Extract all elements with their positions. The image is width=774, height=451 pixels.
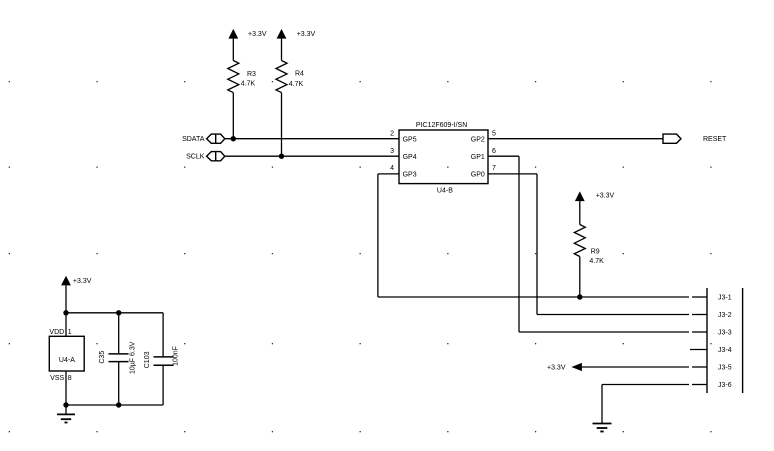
pin J3-3: [692, 329, 732, 336]
pin 7 GP0: [471, 165, 496, 179]
svg-text:4.7K: 4.7K: [289, 81, 304, 88]
junction rail/C35: [116, 310, 121, 315]
svg-text:GP1: GP1: [471, 154, 485, 161]
svg-text:GP2: GP2: [471, 137, 485, 144]
svg-text:R3: R3: [247, 71, 256, 78]
resistor R3 4.7K: [228, 61, 256, 93]
svg-text:C103: C103: [144, 351, 151, 368]
wire GP3 horizontal to J3-1: [378, 296, 689, 298]
svg-text:1: 1: [68, 329, 72, 336]
wire GP3 vertical: [377, 174, 379, 297]
wire GP0 horizontal to J3-2: [537, 314, 689, 316]
wire bottom rail: [66, 404, 163, 406]
wire net SCLK to pin 3: [225, 155, 399, 157]
wire GP0 vertical: [536, 174, 538, 315]
svg-text:VDD: VDD: [49, 329, 64, 336]
junction rail/C35 bottom: [116, 402, 121, 407]
svg-text:R9: R9: [591, 249, 600, 256]
wire C103 top lead: [162, 313, 164, 357]
wire R9 bottom lead: [579, 257, 581, 298]
resistor R4 4.7K: [276, 61, 304, 93]
svg-text:6: 6: [492, 148, 496, 155]
svg-text:C35: C35: [99, 351, 106, 364]
ground (U4-A): [57, 414, 75, 422]
pin J3-5: [692, 364, 732, 371]
junction rail/VDD: [63, 310, 68, 315]
wire J3-6 net: [602, 385, 689, 424]
op IC U4-A: [49, 336, 84, 371]
svg-text:7: 7: [492, 165, 496, 172]
connector J3 body: [707, 288, 743, 393]
svg-text:+3.3V: +3.3V: [248, 31, 267, 38]
resistor R9 4.7K: [574, 225, 604, 266]
svg-text:J3-3: J3-3: [718, 329, 732, 336]
wire to ground: [65, 405, 67, 414]
pin 3 GP4: [390, 148, 417, 161]
svg-text:2: 2: [390, 131, 394, 138]
pin 5 GP2: [471, 131, 496, 144]
pin J3-6: [692, 382, 732, 389]
svg-text:J3-4: J3-4: [718, 347, 732, 354]
wire pin7 stub: [488, 173, 537, 175]
svg-text:GP4: GP4: [403, 154, 417, 161]
svg-text:4: 4: [390, 165, 394, 172]
svg-text:GP0: GP0: [471, 172, 485, 179]
capacitor C103 100nF: [144, 346, 180, 368]
svg-text:8: 8: [68, 375, 72, 382]
svg-text:RESET: RESET: [703, 136, 727, 143]
pin 6 GP1: [471, 148, 496, 161]
wire VSS to bottom rail: [65, 371, 67, 405]
svg-text:J3-1: J3-1: [718, 294, 732, 301]
wire R4 bottom lead to SCLK: [281, 93, 283, 157]
power +3.3V (U4-A): [61, 276, 92, 313]
power +3.3V (R4): [277, 29, 316, 61]
port SCLK: [186, 152, 225, 161]
pin J3-4: [690, 347, 732, 354]
wire pin6 stub: [488, 155, 519, 157]
wire top rail: [66, 312, 163, 314]
wire C35 top lead: [118, 313, 120, 354]
svg-text:J3-5: J3-5: [718, 364, 732, 371]
op IC U4-B PIC12F609-I/SN: [399, 122, 488, 195]
junction rail/VSS: [63, 402, 68, 407]
pin 1 VDD: [49, 329, 71, 336]
svg-text:GP5: GP5: [403, 137, 417, 144]
capacitor C35 10uF 6.3V: [99, 341, 136, 374]
wire VDD rail vertical: [65, 313, 67, 337]
pin J3-1: [692, 294, 732, 301]
svg-text:J3-6: J3-6: [718, 382, 732, 389]
pin 4 GP3: [390, 165, 417, 179]
wire C103 bottom lead: [162, 365, 164, 405]
wire C35 bottom lead: [118, 362, 120, 405]
power +3.3V (R3): [228, 29, 266, 61]
svg-text:GP3: GP3: [403, 172, 417, 179]
svg-text:10µF 6.3V: 10µF 6.3V: [129, 341, 136, 374]
wire GP1 vertical: [518, 156, 520, 332]
junction R9/J3-1 net: [577, 294, 582, 299]
svg-text:3: 3: [390, 148, 394, 155]
pin 2 GP5: [390, 131, 417, 144]
svg-text:5: 5: [492, 131, 496, 138]
svg-text:PIC12F609-I/SN: PIC12F609-I/SN: [416, 122, 467, 129]
svg-text:SCLK: SCLK: [186, 154, 205, 161]
svg-text:+3.3V: +3.3V: [73, 278, 92, 285]
pin J3-2: [692, 312, 732, 319]
wire net SDATA to pin 2: [225, 138, 399, 140]
svg-text:+3.3V: +3.3V: [547, 364, 566, 371]
svg-text:U4-A: U4-A: [59, 357, 75, 364]
svg-text:4.7K: 4.7K: [589, 258, 604, 265]
svg-text:100nF: 100nF: [173, 346, 180, 366]
pin 8 VSS: [50, 375, 72, 382]
junction SDATA/R3: [231, 136, 236, 141]
power +3.3V (J3-5): [547, 363, 582, 372]
wire J3-5 net: [582, 366, 689, 368]
port SDATA: [182, 134, 225, 143]
ground (J3-6): [593, 424, 612, 432]
power +3.3V (R9): [575, 191, 615, 224]
svg-text:R4: R4: [295, 71, 304, 78]
port RESET: [663, 134, 727, 143]
wire pin4 stub: [378, 173, 399, 175]
svg-text:VSS: VSS: [50, 375, 64, 382]
svg-text:J3-2: J3-2: [718, 312, 732, 319]
svg-text:+3.3V: +3.3V: [596, 193, 615, 200]
wire GP1 horizontal to J3-3: [519, 331, 689, 333]
svg-text:SDATA: SDATA: [182, 136, 205, 143]
svg-text:U4-B: U4-B: [437, 187, 453, 194]
svg-text:+3.3V: +3.3V: [297, 31, 316, 38]
wire R3 bottom lead to SDATA: [232, 93, 234, 139]
junction SCLK/R4: [279, 154, 284, 159]
svg-text:4.7K: 4.7K: [241, 81, 256, 88]
wire pin5 to RESET port: [488, 138, 663, 140]
